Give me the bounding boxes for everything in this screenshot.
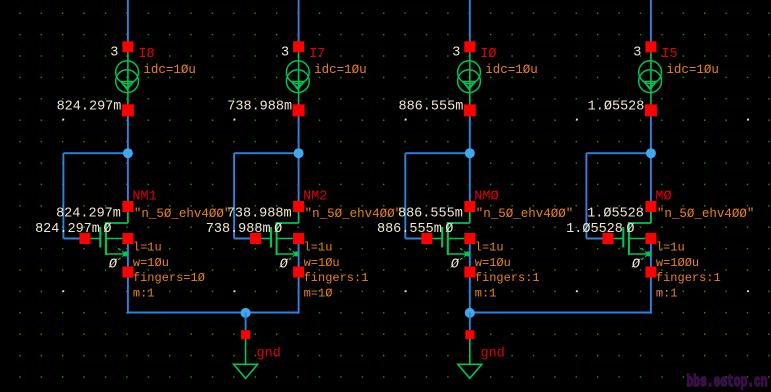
svg-text:m=1Ø: m=1Ø: [304, 287, 333, 301]
svg-text:idc=1Øu: idc=1Øu: [314, 63, 367, 77]
svg-text:"n_5Ø_ehv4ØØ": "n_5Ø_ehv4ØØ": [134, 207, 232, 221]
junction: left rail ground tap: [241, 308, 251, 318]
svg-text:1.Ø5528: 1.Ø5528: [587, 207, 644, 222]
wire: source/bulk of NM2 down to ground rail: [298, 244, 300, 314]
ground symbol gnd: [458, 330, 482, 378]
svg-text:3: 3: [110, 46, 118, 61]
wire: gate feedback loop of NM2: [234, 153, 299, 238]
svg-text:1.Ø5528: 1.Ø5528: [588, 100, 645, 115]
svg-text:3: 3: [633, 46, 641, 61]
svg-text:886.555m: 886.555m: [398, 207, 463, 222]
svg-text:738.988m: 738.988m: [227, 207, 292, 222]
svg-text:l=1u: l=1u: [475, 241, 504, 255]
wire: I5 output to drain of MØ: [650, 116, 652, 203]
svg-text:"n_5Ø_ehv4ØØ": "n_5Ø_ehv4ØØ": [657, 207, 755, 221]
svg-text:gnd: gnd: [481, 346, 505, 361]
svg-text:fingers:1: fingers:1: [656, 271, 721, 285]
current source I7 (idc): [286, 41, 309, 116]
nmos transistor MØ: [602, 201, 656, 278]
current source I8 (idc): [116, 41, 139, 116]
wire: rail tap down to gnd symbol: [245, 313, 247, 331]
svg-text:738.988m: 738.988m: [227, 100, 292, 115]
junction: drain/gate node of MØ: [646, 148, 656, 158]
wire: gate feedback loop of NMØ: [405, 153, 470, 238]
svg-text:l=1u: l=1u: [656, 241, 685, 255]
svg-text:886.555m: 886.555m: [377, 222, 442, 237]
junction: drain/gate node of NMØ: [465, 148, 475, 158]
nmos transistor NM1: [79, 201, 133, 278]
svg-text:bbs.eetop.cn: bbs.eetop.cn: [687, 373, 768, 392]
svg-text:idc=1Øu: idc=1Øu: [666, 63, 719, 77]
svg-text:m:1: m:1: [475, 287, 497, 301]
svg-text:m:1: m:1: [656, 287, 678, 301]
svg-text:fingers:1: fingers:1: [475, 271, 540, 285]
wire: rail tap down to gnd symbol: [469, 313, 471, 331]
svg-text:738.988m: 738.988m: [206, 222, 271, 237]
svg-text:m:1: m:1: [133, 287, 155, 301]
svg-text:NM1: NM1: [132, 190, 156, 205]
wire: supply stub net at top of IØ: [469, 0, 471, 42]
wire: ground rail between NM0 and M0 sources: [470, 312, 651, 314]
svg-text:I5: I5: [661, 47, 677, 62]
svg-text:MØ: MØ: [655, 190, 671, 205]
svg-text:824.297m: 824.297m: [57, 100, 122, 115]
svg-text:I8: I8: [138, 47, 154, 62]
wire: IØ output to drain of NMØ: [469, 116, 471, 203]
junction: drain/gate node of NM1: [123, 148, 133, 158]
svg-text:1.Ø5528: 1.Ø5528: [566, 222, 623, 237]
svg-text:824.297m: 824.297m: [56, 207, 121, 222]
wire: supply stub net at top of I7: [298, 0, 300, 42]
wire: supply stub net at top of I8: [127, 0, 129, 42]
wire: source/bulk of MØ down to ground rail: [650, 244, 652, 314]
svg-text:Ø: Ø: [445, 222, 453, 237]
wire: gate feedback loop of NM1: [63, 153, 128, 238]
svg-text:l=1u: l=1u: [304, 241, 333, 255]
svg-text:gnd: gnd: [257, 346, 281, 361]
wire: source/bulk of NM1 down to ground rail: [127, 244, 129, 314]
svg-text:Ø: Ø: [450, 258, 460, 273]
svg-text:fingers:1: fingers:1: [304, 271, 369, 285]
wire: ground rail between NM1 and NM2 sources: [128, 312, 299, 314]
nmos transistor NM2: [250, 201, 304, 278]
svg-text:3: 3: [281, 46, 289, 61]
svg-text:w=1ØØu: w=1ØØu: [656, 256, 699, 270]
current source I5 (idc): [639, 41, 662, 116]
svg-text:idc=1Øu: idc=1Øu: [485, 63, 538, 77]
wire: I7 output to drain of NM2: [298, 116, 300, 203]
svg-text:NMØ: NMØ: [474, 190, 498, 205]
svg-text:Ø: Ø: [626, 222, 634, 237]
svg-text:Ø: Ø: [103, 222, 111, 237]
svg-text:NM2: NM2: [303, 190, 327, 205]
svg-text:Ø: Ø: [631, 258, 641, 273]
svg-text:w=1Øu: w=1Øu: [304, 256, 340, 270]
svg-text:"n_5Ø_ehv4ØØ": "n_5Ø_ehv4ØØ": [305, 207, 403, 221]
svg-text:fingers=1Ø: fingers=1Ø: [133, 271, 205, 285]
svg-text:"n_5Ø_ehv4ØØ": "n_5Ø_ehv4ØØ": [476, 207, 574, 221]
svg-text:IØ: IØ: [480, 47, 496, 62]
wire: gate feedback loop of MØ: [586, 153, 651, 238]
svg-text:Ø: Ø: [108, 258, 118, 273]
svg-text:w=1Øu: w=1Øu: [475, 256, 511, 270]
wire: source/bulk of NMØ down to ground rail: [469, 244, 471, 314]
wire: supply stub net at top of I5: [650, 0, 652, 42]
ground symbol gnd: [234, 330, 258, 378]
svg-text:w=1Øu: w=1Øu: [133, 256, 169, 270]
current source IØ (idc): [458, 41, 481, 116]
svg-text:Ø: Ø: [279, 258, 289, 273]
svg-text:Ø: Ø: [274, 222, 282, 237]
svg-text:824.297m: 824.297m: [35, 222, 100, 237]
svg-text:3: 3: [452, 46, 460, 61]
svg-text:idc=1Øu: idc=1Øu: [143, 63, 196, 77]
wire: I8 output to drain of NM1: [127, 116, 129, 203]
junction: right rail ground tap: [465, 308, 475, 318]
svg-text:886.555m: 886.555m: [398, 100, 463, 115]
svg-text:I7: I7: [309, 47, 325, 62]
svg-text:l=1u: l=1u: [133, 241, 162, 255]
junction: drain/gate node of NM2: [294, 148, 304, 158]
nmos transistor NMØ: [421, 201, 475, 278]
